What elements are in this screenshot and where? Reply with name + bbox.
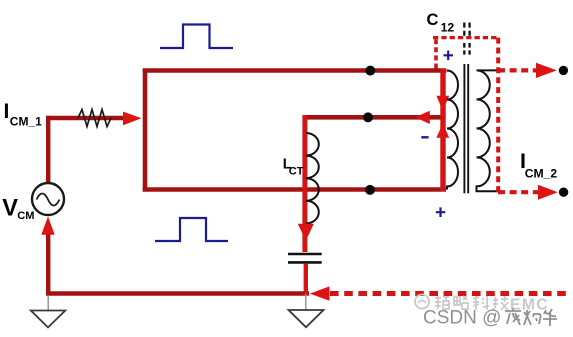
svg-text:I: I bbox=[4, 100, 10, 123]
capacitor lower lead bbox=[304, 264, 308, 296]
wire top (loop top, y=71) bbox=[143, 68, 447, 73]
C12 dashed loop (top) bbox=[433, 36, 499, 39]
inductor L_CT red wire bbox=[302, 115, 307, 252]
arrow left on center-tap wire bbox=[415, 111, 430, 124]
wire left vertical of loop (x=145) bbox=[143, 69, 148, 192]
arrow right bottom terminal bbox=[538, 185, 558, 200]
capacitor C12 plates (black dashed) bbox=[463, 23, 465, 55]
svg-text:CM: CM bbox=[17, 210, 34, 222]
wire center-tap horizontal (y=117) bbox=[305, 115, 445, 120]
polarity - middle bbox=[421, 136, 428, 138]
watermark line 1 (gray CJK pseudo-glyphs + EMC) bbox=[435, 296, 508, 310]
source V_CM (circle with sine) bbox=[32, 183, 64, 215]
dashed wire to bottom-right terminal bbox=[498, 190, 541, 194]
pulse waveform bottom bbox=[155, 218, 228, 241]
wire V_CM bottom lead bbox=[46, 229, 50, 296]
transformer primary red wire bbox=[440, 69, 445, 192]
pulse waveform top bbox=[160, 25, 233, 49]
arrow into V_CM (points up) bbox=[41, 217, 54, 235]
svg-text:CM_2: CM_2 bbox=[525, 166, 558, 180]
resistor (zigzag on I_CM_1 branch) bbox=[78, 110, 111, 127]
dashed ground return wire bbox=[330, 291, 566, 296]
node dot top bbox=[365, 66, 375, 76]
wire loop bottom (y=189.5) bbox=[143, 187, 446, 192]
svg-text:CT: CT bbox=[289, 166, 304, 178]
svg-text:12: 12 bbox=[441, 21, 455, 35]
dashed wire to top-right terminal bbox=[498, 68, 537, 72]
ground left bbox=[47, 295, 49, 311]
svg-text:CM_1: CM_1 bbox=[10, 114, 42, 128]
transformer secondary winding arcs + leads bbox=[477, 70, 499, 191]
wire V_CM top lead bbox=[46, 116, 50, 184]
ground middle bbox=[305, 294, 307, 310]
terminal dot bottom right bbox=[559, 188, 568, 197]
arrow I_CM_1 (points right) bbox=[123, 112, 142, 126]
svg-text:CSDN @: CSDN @ bbox=[423, 308, 501, 329]
wire I_CM_1 branch (y=118) bbox=[46, 116, 126, 121]
watermark logo bbox=[415, 295, 429, 309]
C12 dashed loop (left leg) bbox=[434, 38, 438, 69]
transformer core lines bbox=[463, 64, 465, 193]
wire ground bottom (y=293.5) bbox=[46, 291, 309, 296]
polarity + bottom bbox=[436, 207, 446, 217]
transformer primary winding arcs bbox=[447, 71, 458, 190]
svg-text:C: C bbox=[427, 11, 439, 29]
arrow down into capacitor bbox=[298, 224, 314, 241]
arrow down on primary upper half bbox=[436, 96, 449, 111]
arrow right top terminal bbox=[536, 63, 557, 78]
node dot middle bbox=[363, 112, 373, 122]
polarity + top bbox=[444, 51, 454, 61]
terminal dot top right bbox=[559, 66, 568, 75]
arrow left at ground return bbox=[310, 286, 330, 300]
capacitor to ground (two plates) bbox=[288, 253, 322, 256]
svg-text:V: V bbox=[2, 195, 18, 221]
node dot bottom bbox=[365, 185, 375, 195]
arrow up on primary lower half bbox=[436, 123, 449, 138]
inductor L_CT coil bbox=[306, 133, 319, 223]
C12 dashed loop (right leg) bbox=[496, 38, 500, 193]
